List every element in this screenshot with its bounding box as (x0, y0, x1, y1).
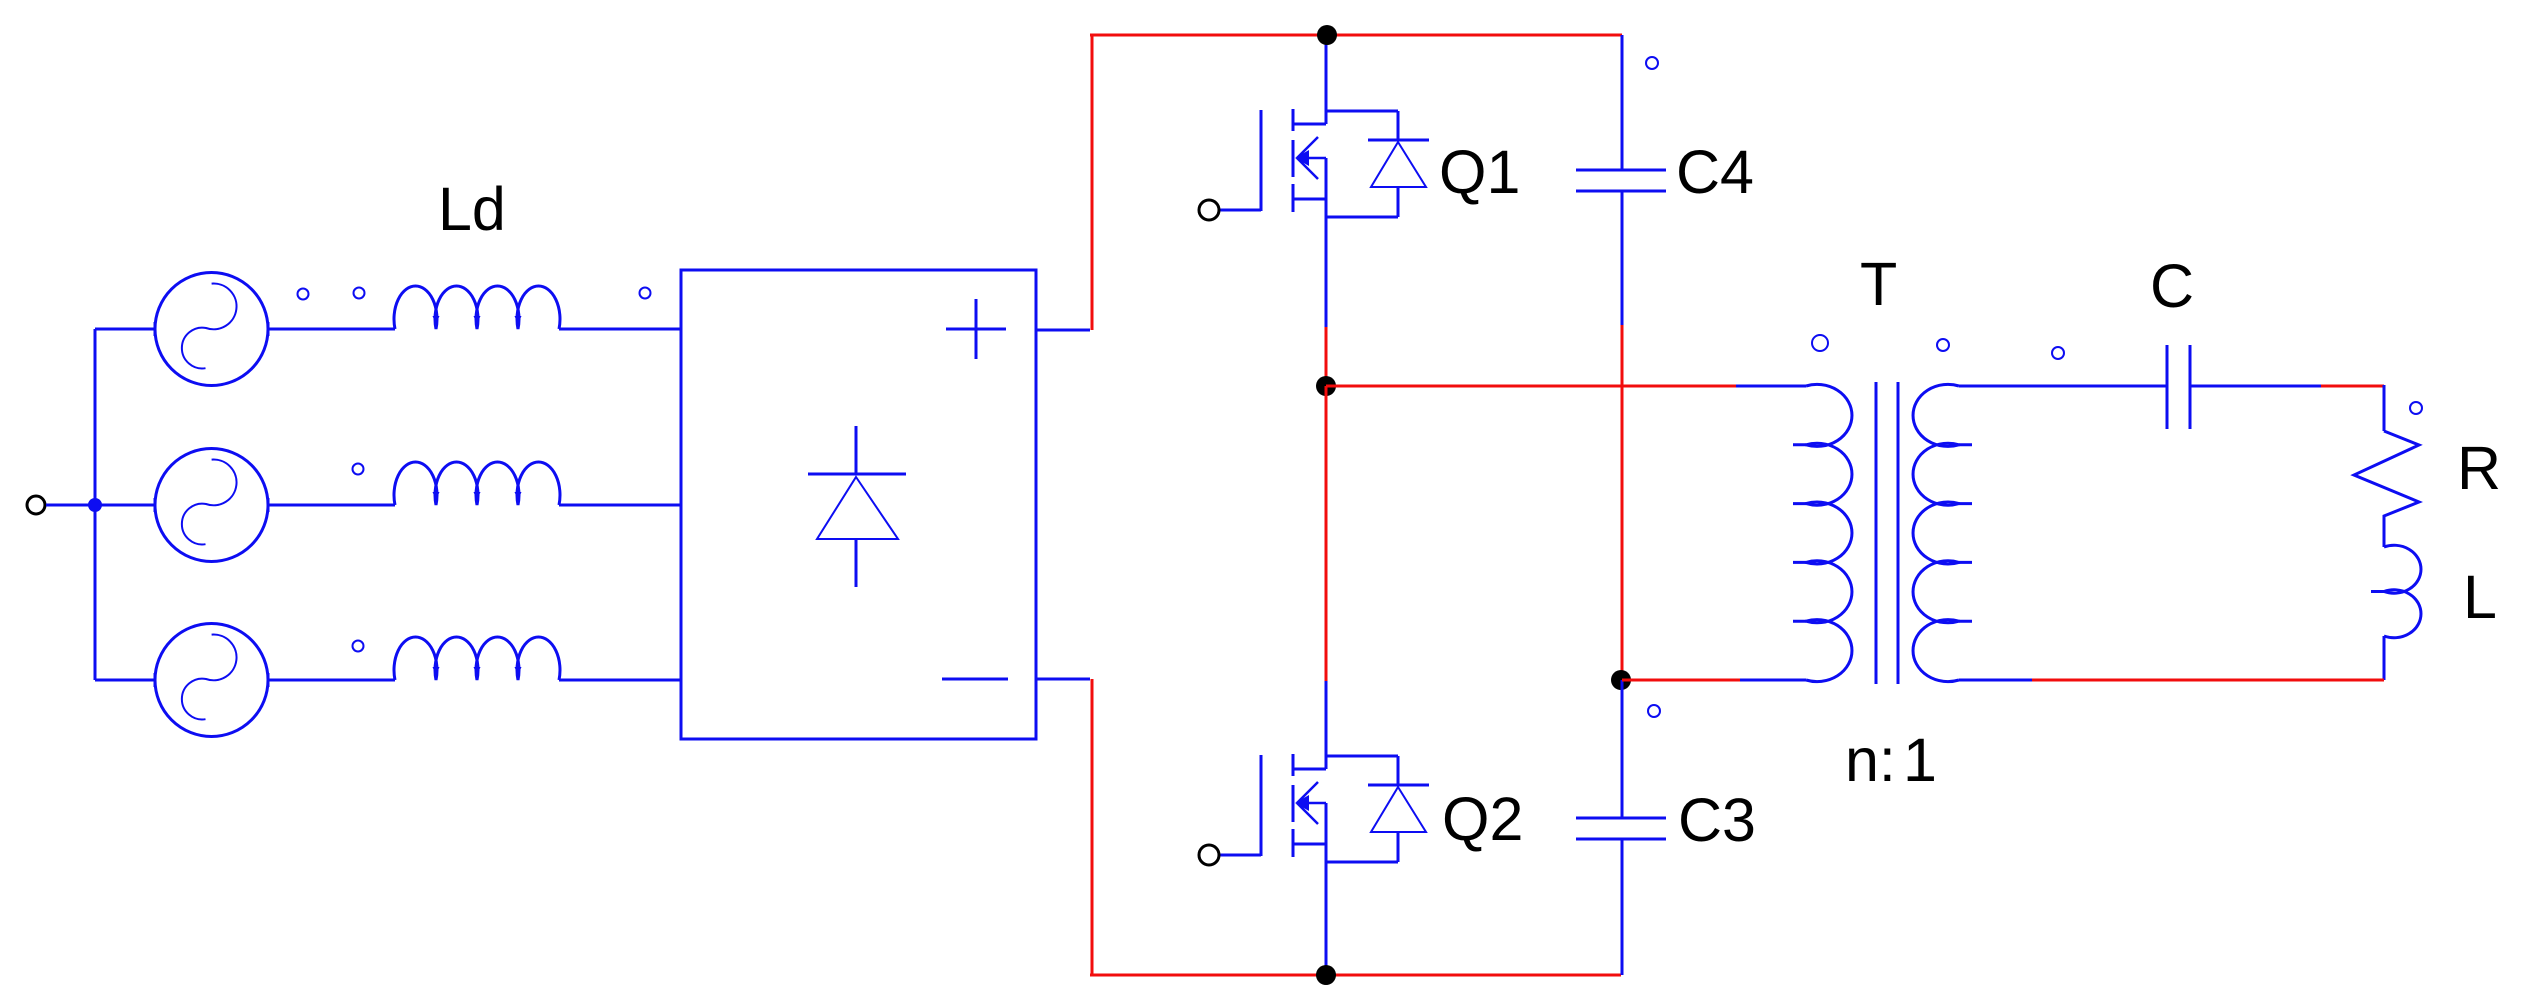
transistor Q1 (MOSFET with body diode) (1219, 35, 1429, 327)
node marker (row1 a) (298, 289, 309, 300)
capacitor C4 (1576, 35, 1666, 325)
wire L down to bottom (2383, 636, 2386, 680)
svg-text:1: 1 (1903, 726, 1937, 794)
svg-text:Ld: Ld (438, 175, 506, 243)
source VC (AC source, bottom) (155, 624, 268, 737)
node marker (row3) (353, 641, 364, 652)
node marker before C (2052, 347, 2064, 359)
transformer T primary winding (1806, 384, 1852, 681)
svg-text:T: T (1860, 250, 1897, 318)
wire rectifier - stub (1036, 678, 1090, 681)
svg-text:L: L (2463, 563, 2497, 631)
transformer primary cusp ticks (1793, 445, 1806, 621)
wire top bus (red) (1090, 34, 1622, 37)
inductor (row 2) (394, 462, 560, 505)
wire mid bus (red) (1326, 385, 1736, 388)
wire bus to source VB (95, 498, 268, 512)
node marker near C3 (1648, 705, 1660, 717)
wire - rail down (red) (1091, 679, 1094, 975)
svg-text:C4: C4 (1676, 138, 1754, 206)
source VA (AC source, top) (155, 273, 268, 386)
source VB (AC source, middle) (155, 449, 268, 562)
node transformer-bottom junction dot (1611, 670, 1631, 690)
svg-text:Q2: Q2 (1442, 785, 1523, 853)
node bus junction (blue dot) (88, 498, 102, 512)
wire bottom right (red) (2032, 679, 2384, 682)
wire mid node down to Q2 (red) (1325, 386, 1328, 681)
node marker (row1 c) (640, 288, 651, 299)
wire source VB to inductor (268, 504, 395, 507)
svg-text:Q1: Q1 (1439, 138, 1520, 206)
wire terminal to bus (46, 504, 95, 507)
inductor L (load) (2384, 545, 2421, 637)
wire source VC to inductor (268, 679, 395, 682)
capacitor C (series) (2167, 345, 2190, 429)
wire source VA to inductor (268, 328, 395, 331)
inductor (row 3) (394, 637, 560, 680)
wire inductor to rectifier (row 3) (559, 679, 681, 682)
wire + rail up (red) (1091, 35, 1094, 330)
node marker near C4 (1646, 57, 1658, 69)
wire transformer bottom left (red) (1622, 679, 1740, 682)
wire inductor to rectifier (row 2) (559, 504, 681, 507)
transistor Q2 (MOSFET with body diode) (1219, 681, 1429, 975)
node marker transformer primary top (1812, 335, 1828, 351)
wire rectifier + stub (1036, 329, 1090, 332)
gate terminal Q1 (open circle) (1199, 200, 1219, 220)
wire left vertical bus (94, 329, 97, 680)
wire bottom bus (red) (1090, 974, 1621, 977)
wire secondary top to C (1959, 385, 2167, 388)
svg-text:n:: n: (1845, 726, 1896, 794)
node bottom junction dot (1316, 965, 1336, 985)
wire corner down to R (2383, 385, 2386, 431)
capacitor C3 (1576, 680, 1666, 975)
wire C4 to lower node (red) (1621, 325, 1624, 680)
svg-text:C3: C3 (1678, 786, 1756, 854)
wire bus to source VA (95, 322, 268, 336)
wire inductor to rectifier (row 1) (559, 328, 681, 331)
wire C to corner (2190, 385, 2321, 388)
wire corner (red) (2321, 385, 2384, 388)
node marker near R (2410, 402, 2422, 414)
inductor L cusp tick (2371, 590, 2384, 593)
node marker transformer secondary top (1937, 339, 1949, 351)
transformer T secondary winding (1913, 384, 1959, 681)
transformer core (1876, 382, 1898, 684)
svg-text:R: R (2457, 434, 2501, 502)
inductor Ld (row 1) (394, 286, 560, 329)
wire mid bus blue tail to transformer (1736, 385, 1806, 388)
node input terminal (open circle, far left) (27, 496, 45, 514)
node marker (row1 b) (354, 288, 365, 299)
wire transformer bottom left blue tail (1740, 679, 1806, 682)
node marker (row2) (353, 464, 364, 475)
svg-text:C: C (2150, 252, 2194, 320)
wire bottom right blue tail to secondary (1959, 679, 2032, 682)
wire bus to source VC (95, 673, 268, 687)
node mid junction dot (1316, 376, 1336, 396)
node top junction dot (1317, 25, 1337, 45)
transformer secondary cusp ticks (1959, 445, 1972, 621)
gate terminal Q2 (open circle) (1199, 845, 1219, 865)
resistor R (2354, 431, 2419, 547)
rectifier BD1 (diode bridge block) (681, 270, 1036, 739)
wire Q1 source to mid node (red) (1325, 327, 1328, 386)
